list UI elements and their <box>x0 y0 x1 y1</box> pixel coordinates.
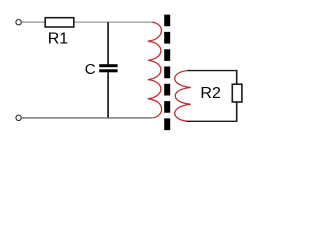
wire secondary top to right <box>187 70 237 72</box>
wire right side down to R2 <box>236 70 238 85</box>
wire R2 bottom to corner <box>236 102 238 121</box>
transformer secondary winding L2 <box>175 71 191 122</box>
svg-text:C: C <box>85 61 96 78</box>
terminal T2 (bottom-left input) <box>16 115 21 120</box>
transformer primary winding L1 <box>148 22 162 118</box>
terminal T1 (top-left input) <box>16 20 21 25</box>
wire from T2 to primary winding bottom <box>21 117 152 119</box>
svg-text:R2: R2 <box>200 85 221 102</box>
capacitor C bottom plate <box>99 69 117 72</box>
wire capacitor bottom lead <box>107 72 109 118</box>
svg-text:R1: R1 <box>48 31 69 48</box>
resistor R2 <box>232 84 242 102</box>
capacitor C top plate <box>99 64 117 67</box>
wire from T1 to R1 <box>21 21 45 23</box>
wire capacitor top lead <box>107 22 109 64</box>
wire loop bottom back to secondary <box>187 120 238 122</box>
transformer core (dashed) <box>164 15 170 131</box>
wire from R1 to primary winding top <box>75 21 152 23</box>
resistor R1 <box>45 18 74 27</box>
